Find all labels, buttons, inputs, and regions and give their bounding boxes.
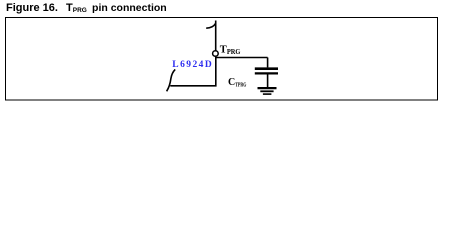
IC L6924D partial outline: right edge and bottom edge with break mark — [167, 57, 216, 91]
wire: TPRG node to capacitor — [215, 57, 268, 59]
capacitor CTPRG plates — [255, 69, 278, 74]
figure title: Figure 16. TPRG pin connection — [6, 2, 167, 14]
pin TPRG (open-circle terminal) — [213, 51, 219, 57]
svg-text:Figure 16.: Figure 16. — [6, 2, 58, 14]
wire: capacitor top stub — [267, 58, 269, 68]
wire: capacitor bottom stub — [267, 75, 269, 88]
IC L6924D partial outline: top edge break mark — [206, 24, 215, 29]
ground symbol — [258, 88, 277, 94]
svg-text:L6924D: L6924D — [172, 60, 213, 70]
wire: TPRG pin lead up into IC — [215, 21, 217, 51]
